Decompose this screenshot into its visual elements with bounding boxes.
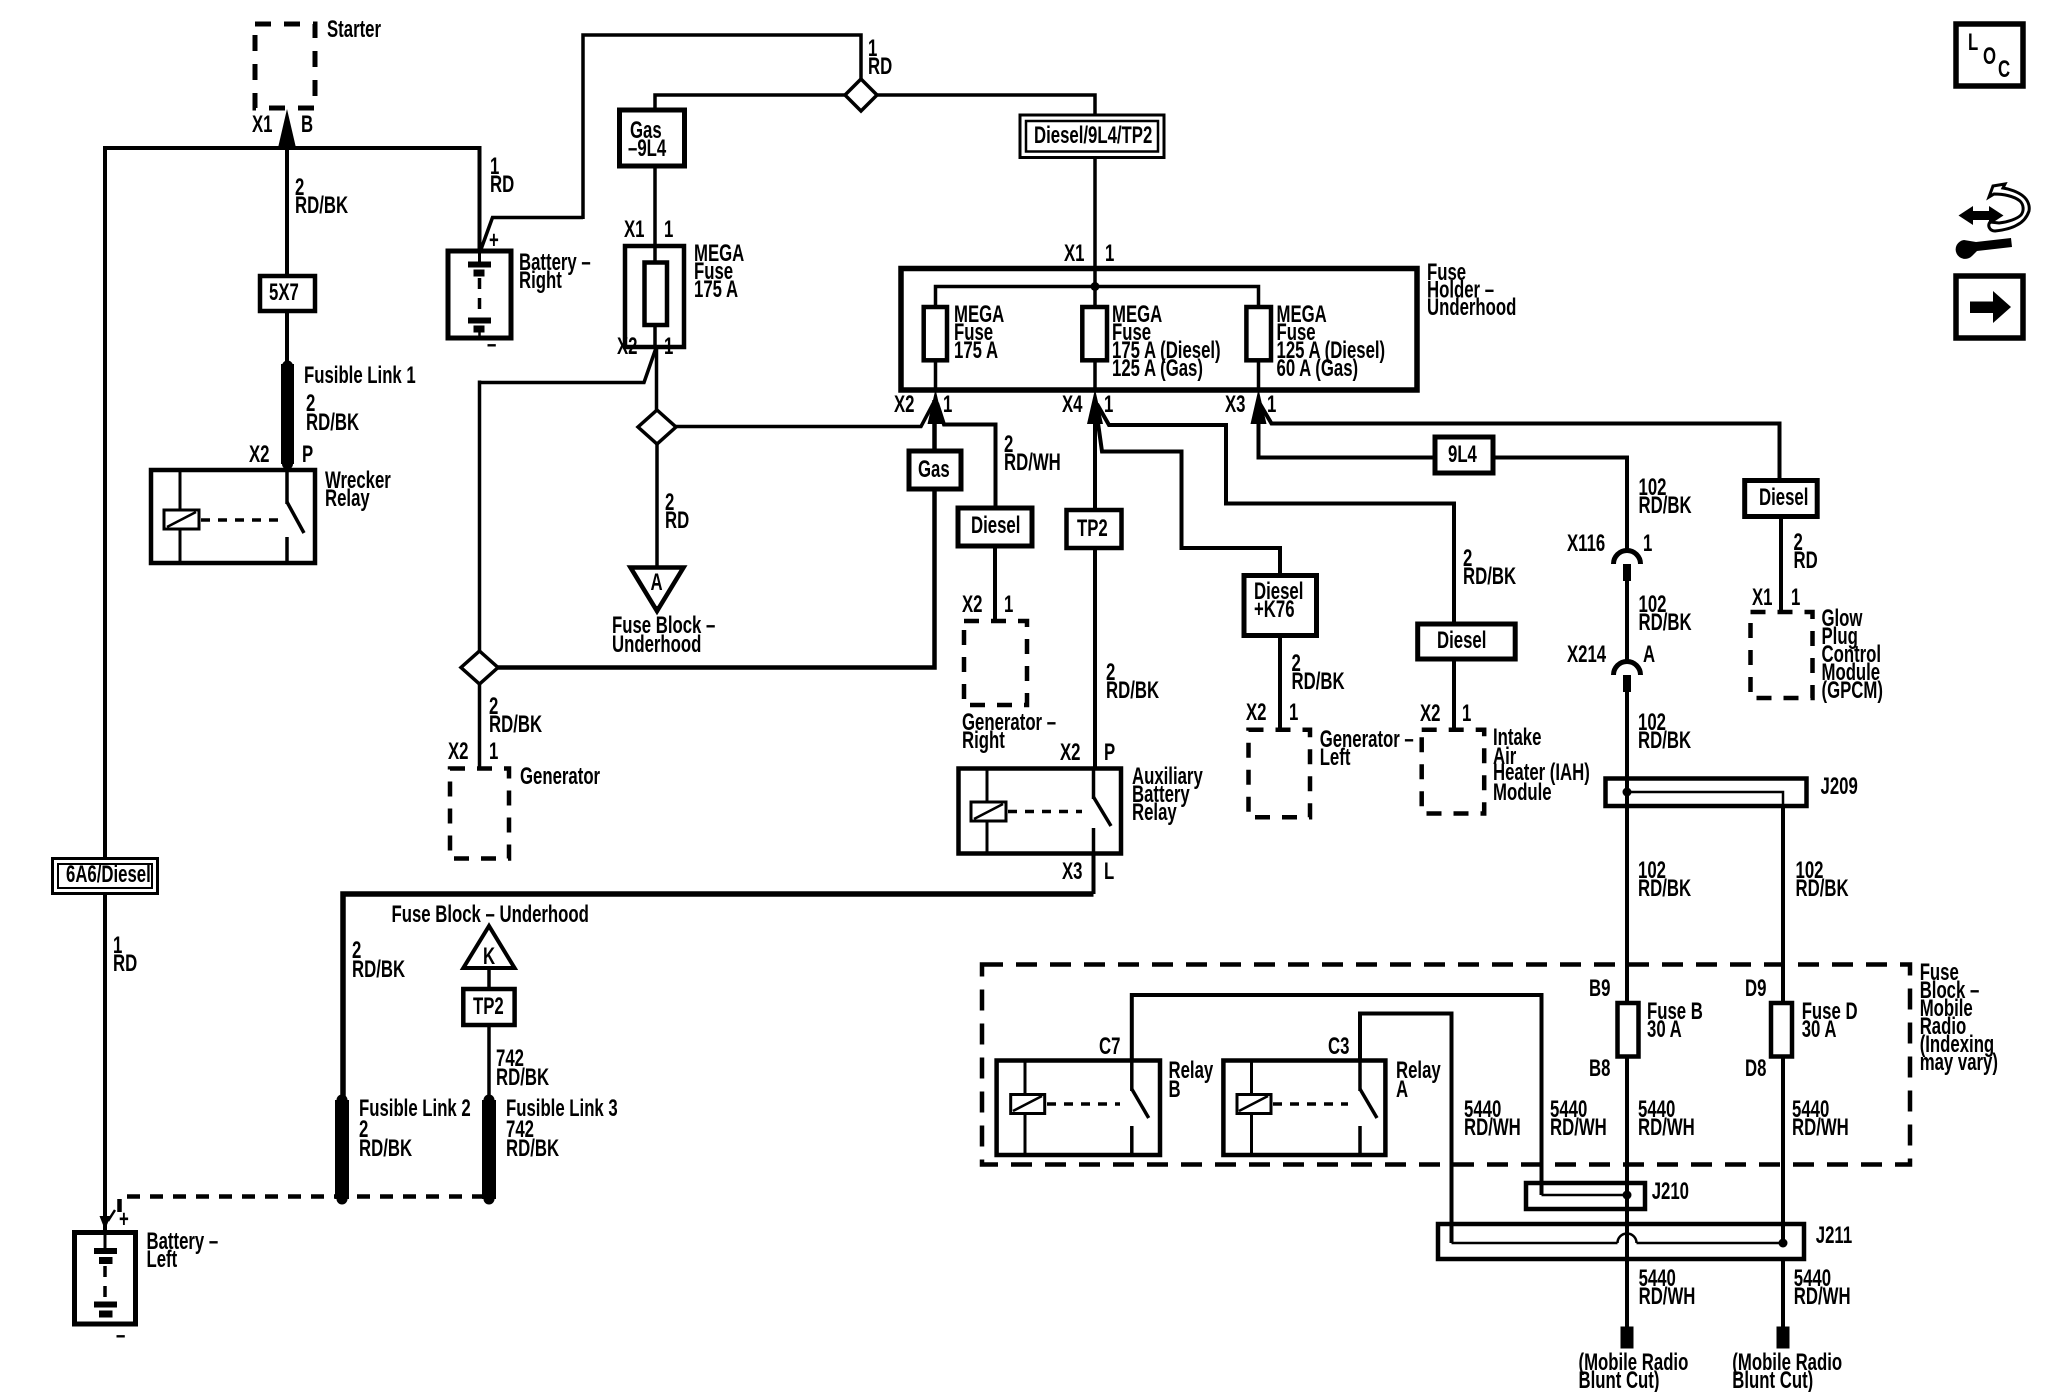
- svg-text:C7: C7: [1099, 1033, 1120, 1060]
- pin labels X2 P: [249, 441, 313, 468]
- wire X214 to J209 (102 RD/BK): [1627, 692, 1691, 779]
- wire diamond to Diesel/9L4/TP2: [877, 95, 1095, 116]
- wire Gas down and left to splice 3: [498, 489, 935, 668]
- svg-text:TP2: TP2: [1077, 515, 1108, 542]
- fusible link 1: [281, 361, 416, 470]
- IAH module (dashed box): [1422, 724, 1590, 813]
- pin arrow X2: [894, 389, 953, 424]
- svg-text:X2: X2: [894, 391, 914, 418]
- wire label 2 RD/BK: [295, 174, 348, 219]
- svg-text:X2: X2: [1420, 700, 1440, 727]
- svg-text:L: L: [1968, 29, 1978, 56]
- svg-text:RD/BK: RD/BK: [1639, 492, 1692, 519]
- svg-text:RD/WH: RD/WH: [1464, 1114, 1521, 1141]
- svg-text:RD/WH: RD/WH: [1638, 1114, 1695, 1141]
- pin arrow X3: [1225, 389, 1277, 424]
- svg-text:1: 1: [1104, 391, 1114, 418]
- svg-text:1: 1: [1267, 391, 1277, 418]
- fusible link 3: [482, 1095, 618, 1205]
- fuse MEGA Fuse 175 A (holder): [924, 301, 1005, 364]
- connector TP2 (underhood): [463, 989, 514, 1025]
- svg-text:X4: X4: [1062, 391, 1083, 418]
- wire relay A C3 to J211: [1360, 1014, 1452, 1244]
- svg-text:Right: Right: [962, 727, 1005, 754]
- wire splice down 2 RD: [657, 444, 689, 568]
- svg-text:D9: D9: [1745, 975, 1766, 1002]
- connector 5X7: [260, 276, 315, 311]
- svg-text:X214: X214: [1567, 641, 1606, 668]
- fuse MEGA Fuse 125 A (Diesel) 60 A (Gas): [1246, 301, 1385, 382]
- wire Diesel+K76 to Generator-Left (2 RD/BK): [1280, 636, 1345, 730]
- svg-text:Blunt Cut): Blunt Cut): [1732, 1367, 1813, 1392]
- pin labels X1 1: [624, 216, 674, 243]
- svg-text:Diesel: Diesel: [971, 512, 1020, 539]
- icon double arrow with hook and wrench: [1956, 184, 2030, 259]
- icon LOC: [1956, 24, 2023, 86]
- wire to battery right: [478, 146, 482, 252]
- battery Battery - Left: [75, 1206, 219, 1349]
- svg-text:RD: RD: [490, 171, 514, 198]
- svg-text:(GPCM): (GPCM): [1822, 677, 1883, 704]
- wire relay B C7 to J210: [1132, 995, 1542, 1195]
- relay Relay A: [1223, 1057, 1441, 1155]
- svg-text:B: B: [1169, 1076, 1181, 1103]
- connector Diesel/9L4/TP2: [1020, 115, 1164, 158]
- fusible link 2: [335, 1095, 471, 1205]
- wire splice to gas fuse pin: [676, 402, 934, 427]
- svg-text:J211: J211: [1816, 1222, 1853, 1249]
- svg-text:1: 1: [943, 391, 953, 418]
- connector Diesel (generator right): [958, 508, 1032, 546]
- svg-text:Gas: Gas: [918, 456, 950, 483]
- svg-text:X2: X2: [962, 591, 982, 618]
- relay Relay B: [997, 1057, 1214, 1155]
- svg-text:Blunt Cut): Blunt Cut): [1579, 1367, 1660, 1392]
- pin label C7: [1099, 1033, 1120, 1060]
- connector Diesel (IAH): [1418, 624, 1516, 659]
- svg-text:RD/BK: RD/BK: [489, 711, 542, 738]
- svg-text:Underhood: Underhood: [1427, 294, 1516, 321]
- svg-text:RD: RD: [665, 507, 689, 534]
- svg-text:Diesel: Diesel: [1437, 627, 1486, 654]
- svg-text:A: A: [1396, 1076, 1408, 1103]
- wire X4 down through TP2: [1093, 400, 1097, 510]
- battery Battery - Right: [448, 227, 591, 358]
- svg-text:J210: J210: [1652, 1178, 1689, 1205]
- svg-text:9L4: 9L4: [1448, 441, 1477, 468]
- svg-text:A: A: [651, 569, 663, 596]
- svg-text:30 A: 30 A: [1647, 1016, 1682, 1043]
- wire internal bus: [936, 269, 1259, 308]
- wire X116 to X214 (102 RD/BK): [1627, 581, 1692, 662]
- svg-text:Relay: Relay: [325, 485, 370, 512]
- svg-text:Diesel/9L4/TP2: Diesel/9L4/TP2: [1034, 122, 1152, 149]
- svg-text:Fusible Link 1: Fusible Link 1: [304, 362, 416, 389]
- svg-text:RD/BK: RD/BK: [1292, 668, 1345, 695]
- junction block J211: [1438, 1222, 1852, 1259]
- wire mega fuse X2 to left bus: [480, 348, 657, 653]
- wire TP2 to aux relay (2 RD/BK): [1095, 548, 1159, 769]
- svg-text:X3: X3: [1225, 391, 1245, 418]
- svg-text:30 A: 30 A: [1802, 1016, 1837, 1043]
- svg-text:1: 1: [1643, 530, 1653, 557]
- wire dashed battery-left positive jumper: [120, 1197, 490, 1213]
- svg-text:RD: RD: [1794, 547, 1818, 574]
- svg-text:J209: J209: [1821, 773, 1858, 800]
- svg-text:RD/BK: RD/BK: [1463, 563, 1516, 590]
- wire X3 down to 9L4: [1259, 400, 1436, 458]
- fuse Fuse D 30 A: [1771, 998, 1858, 1056]
- GPCM module (dashed box): [1751, 605, 1883, 704]
- wire mega fuse X2 down to splice: [655, 347, 659, 411]
- generator left (dashed box): [1249, 726, 1414, 817]
- svg-text:B: B: [301, 111, 313, 138]
- junction dot bus X1: [1091, 282, 1100, 291]
- pin labels X2 1: [1246, 699, 1299, 726]
- wire K to TP2: [487, 968, 491, 989]
- svg-text:B9: B9: [1589, 975, 1610, 1002]
- svg-text:B8: B8: [1589, 1055, 1610, 1082]
- wire labels 5440 RD/WH row: [1464, 1096, 1849, 1141]
- svg-text:X2: X2: [249, 441, 269, 468]
- wire Fuse D to J211: [1781, 1057, 1785, 1244]
- relay Wrecker Relay: [151, 467, 391, 563]
- svg-text:Underhood: Underhood: [612, 631, 701, 658]
- splice diamond 3: [461, 651, 498, 684]
- svg-text:–9L4: –9L4: [628, 135, 667, 162]
- wire starter B down: [285, 144, 289, 368]
- pin labels X2 1: [617, 333, 674, 360]
- blunt cut terminal right: [1732, 1327, 1842, 1392]
- svg-text:TP2: TP2: [473, 993, 504, 1020]
- fuse block underhood label: [392, 901, 589, 928]
- blunt cut terminal left: [1579, 1327, 1689, 1392]
- wire X2 pin branch to Diesel (2 RD/WH): [937, 403, 1061, 508]
- pin arrow X4: [1062, 389, 1114, 424]
- svg-text:X2: X2: [448, 738, 468, 765]
- svg-text:RD/WH: RD/WH: [1794, 1283, 1851, 1310]
- junction block J209: [1606, 773, 1858, 806]
- pin labels X1 1: [1064, 240, 1115, 267]
- fuse MEGA Fuse 175 A (Diesel) 125 A (Gas): [1082, 301, 1220, 382]
- connector X214 pin A: [1567, 641, 1655, 692]
- svg-text:Starter: Starter: [327, 16, 381, 43]
- pin labels X2 1: [448, 738, 499, 765]
- wire diamond to Gas -9L4: [655, 95, 845, 110]
- wire J209 to Fuse D (102 RD/BK): [1783, 806, 1849, 1003]
- svg-text:RD/WH: RD/WH: [1550, 1114, 1607, 1141]
- svg-text:Left: Left: [1320, 744, 1351, 771]
- junction block J210: [1526, 1178, 1689, 1209]
- fuse MEGA Fuse 175 A: [625, 240, 744, 347]
- connector 9L4: [1435, 437, 1493, 473]
- svg-text:1: 1: [1289, 699, 1299, 726]
- wire splice 3 to generator: [480, 684, 543, 769]
- wire fuse block underhood bus: [343, 894, 1094, 1100]
- connector X116 pin 1: [1567, 530, 1653, 581]
- wire battery right to splice: [480, 35, 861, 252]
- svg-text:1: 1: [664, 333, 674, 360]
- relay Auxiliary Battery Relay: [959, 763, 1204, 853]
- pin labels B9 D9: [1589, 975, 1766, 1002]
- pin labels X2 P: [1060, 739, 1115, 766]
- wire X3 branch right to Diesel GPCM: [1260, 404, 1780, 481]
- pin labels X1 B: [252, 111, 313, 138]
- svg-text:X2: X2: [1060, 739, 1080, 766]
- svg-text:X1: X1: [624, 216, 645, 243]
- svg-text:X1: X1: [252, 111, 273, 138]
- fuse block mobile radio (dashed box): [982, 959, 1998, 1164]
- svg-text:X3: X3: [1062, 858, 1082, 885]
- svg-text:1: 1: [489, 738, 499, 765]
- svg-text:Fuse Block – Underhood: Fuse Block – Underhood: [392, 901, 589, 928]
- ground triangle K: [463, 926, 514, 970]
- svg-text:60 A (Gas): 60 A (Gas): [1277, 355, 1359, 382]
- svg-text:X2: X2: [617, 333, 637, 360]
- pin label C3: [1328, 1033, 1349, 1060]
- wire Diesel to Generator-Right: [993, 546, 997, 621]
- svg-text:1: 1: [1462, 700, 1472, 727]
- wire TP2 to fusible link 3 (742 RD/BK): [489, 1025, 549, 1100]
- pin labels X2 1: [1420, 700, 1472, 727]
- svg-text:may vary): may vary): [1920, 1049, 1998, 1076]
- fuse Fuse B 30 A: [1618, 998, 1703, 1056]
- svg-text:X1: X1: [1064, 240, 1085, 267]
- pin labels X1 1: [1752, 584, 1801, 611]
- fuse holder - underhood box: [901, 259, 1516, 390]
- splice diamond 1 RD: [845, 35, 892, 111]
- wire Diesel to IAH module: [1452, 659, 1456, 730]
- svg-text:1: 1: [664, 216, 674, 243]
- svg-text:–: –: [487, 331, 496, 358]
- svg-text:RD/BK: RD/BK: [1638, 727, 1691, 754]
- svg-text:Generator: Generator: [520, 763, 600, 790]
- svg-text:5X7: 5X7: [269, 279, 299, 306]
- svg-text:RD/WH: RD/WH: [1004, 449, 1061, 476]
- svg-text:RD/BK: RD/BK: [506, 1135, 559, 1162]
- svg-text:Left: Left: [147, 1246, 178, 1273]
- connector Gas: [909, 451, 961, 489]
- connector Diesel +K76: [1244, 576, 1317, 636]
- svg-text:–: –: [116, 1322, 125, 1349]
- svg-text:A: A: [1643, 641, 1655, 668]
- svg-text:Diesel: Diesel: [1759, 484, 1808, 511]
- svg-text:RD/WH: RD/WH: [1639, 1283, 1696, 1310]
- wire aux relay L to fuse block bus: [1092, 854, 1096, 895]
- svg-text:Fusible Link 2: Fusible Link 2: [359, 1095, 471, 1122]
- wire left main vertical: [103, 146, 107, 1230]
- svg-text:125 A (Gas): 125 A (Gas): [1112, 355, 1203, 382]
- svg-text:RD: RD: [868, 53, 892, 80]
- wire through fuses: [936, 307, 1259, 389]
- svg-text:C: C: [1998, 56, 2010, 83]
- generator (dashed box): [450, 763, 600, 858]
- connector TP2: [1067, 510, 1122, 548]
- wire 9L4 to X116 (102 RD/BK): [1493, 458, 1692, 552]
- wire Gas-9L4 to mega fuse: [653, 166, 657, 246]
- ground triangle A Fuse Block - Underhood: [612, 568, 715, 658]
- splice diamond 2: [638, 410, 676, 444]
- connector Gas -9L4: [620, 110, 685, 166]
- svg-text:RD/BK: RD/BK: [1106, 677, 1159, 704]
- wire J211 to blunt cut (5440 RD/WH): [1783, 1259, 1851, 1327]
- svg-text:+K76: +K76: [1254, 596, 1295, 623]
- svg-text:C3: C3: [1328, 1033, 1349, 1060]
- svg-text:1: 1: [1105, 240, 1115, 267]
- wire bus from X1/B junction: [103, 146, 480, 150]
- svg-text:RD/BK: RD/BK: [295, 192, 348, 219]
- svg-text:+: +: [489, 227, 499, 254]
- svg-text:RD/BK: RD/BK: [1796, 875, 1849, 902]
- svg-text:175 A: 175 A: [694, 276, 738, 303]
- svg-text:X2: X2: [1246, 699, 1266, 726]
- svg-text:RD/BK: RD/BK: [1639, 609, 1692, 636]
- svg-text:K: K: [483, 943, 495, 970]
- wire Diesel/9L4/TP2 to fuse holder X1: [1093, 158, 1097, 269]
- wire label 1 RD: [113, 932, 137, 977]
- svg-text:L: L: [1104, 858, 1114, 885]
- svg-text:RD/BK: RD/BK: [1638, 875, 1691, 902]
- wire J210 through J211 to blunt cut (5440 RD/WH): [1627, 1195, 1695, 1327]
- connector Diesel (GPCM): [1745, 481, 1818, 517]
- svg-text:RD: RD: [113, 950, 137, 977]
- svg-text:175 A: 175 A: [954, 337, 998, 364]
- svg-text:6A6/Diesel: 6A6/Diesel: [66, 861, 151, 888]
- pin labels B8 D8: [1589, 1055, 1766, 1082]
- svg-text:X116: X116: [1567, 530, 1605, 557]
- pin labels X2 1: [962, 591, 1014, 618]
- wire J209 to Fuse B (102 RD/BK): [1627, 776, 1691, 1003]
- svg-text:1: 1: [1791, 584, 1801, 611]
- svg-text:Relay: Relay: [1132, 799, 1177, 826]
- svg-text:Right: Right: [519, 267, 562, 294]
- svg-text:X1: X1: [1752, 584, 1773, 611]
- svg-text:1: 1: [1004, 591, 1014, 618]
- svg-text:RD/BK: RD/BK: [496, 1064, 549, 1091]
- svg-text:P: P: [1104, 739, 1115, 766]
- icon arrow box: [1956, 276, 2023, 338]
- pin labels X3 L: [1062, 858, 1114, 885]
- connector 6A6/Diesel: [53, 859, 158, 894]
- svg-text:RD/WH: RD/WH: [1792, 1114, 1849, 1141]
- pin B arrow into starter: [278, 109, 297, 150]
- svg-text:RD/BK: RD/BK: [359, 1135, 412, 1162]
- wire X4 branch to Diesel +K76: [1096, 405, 1281, 576]
- generator right (dashed box): [962, 621, 1056, 754]
- starter (dashed box): [255, 16, 381, 108]
- svg-text:Module: Module: [1493, 779, 1552, 806]
- svg-text:RD/BK: RD/BK: [306, 409, 359, 436]
- wire Fuse B to J210: [1625, 1057, 1629, 1196]
- wire Diesel to GPCM (2 RD): [1781, 517, 1818, 613]
- svg-text:D8: D8: [1745, 1055, 1766, 1082]
- svg-text:RD/BK: RD/BK: [352, 956, 405, 983]
- wire X2 pin down to Gas: [932, 400, 937, 451]
- wire X4 branch right to Diesel IAH: [1097, 404, 1516, 624]
- svg-text:O: O: [1983, 43, 1996, 70]
- wire label 1 RD: [490, 153, 514, 198]
- svg-text:P: P: [302, 441, 313, 468]
